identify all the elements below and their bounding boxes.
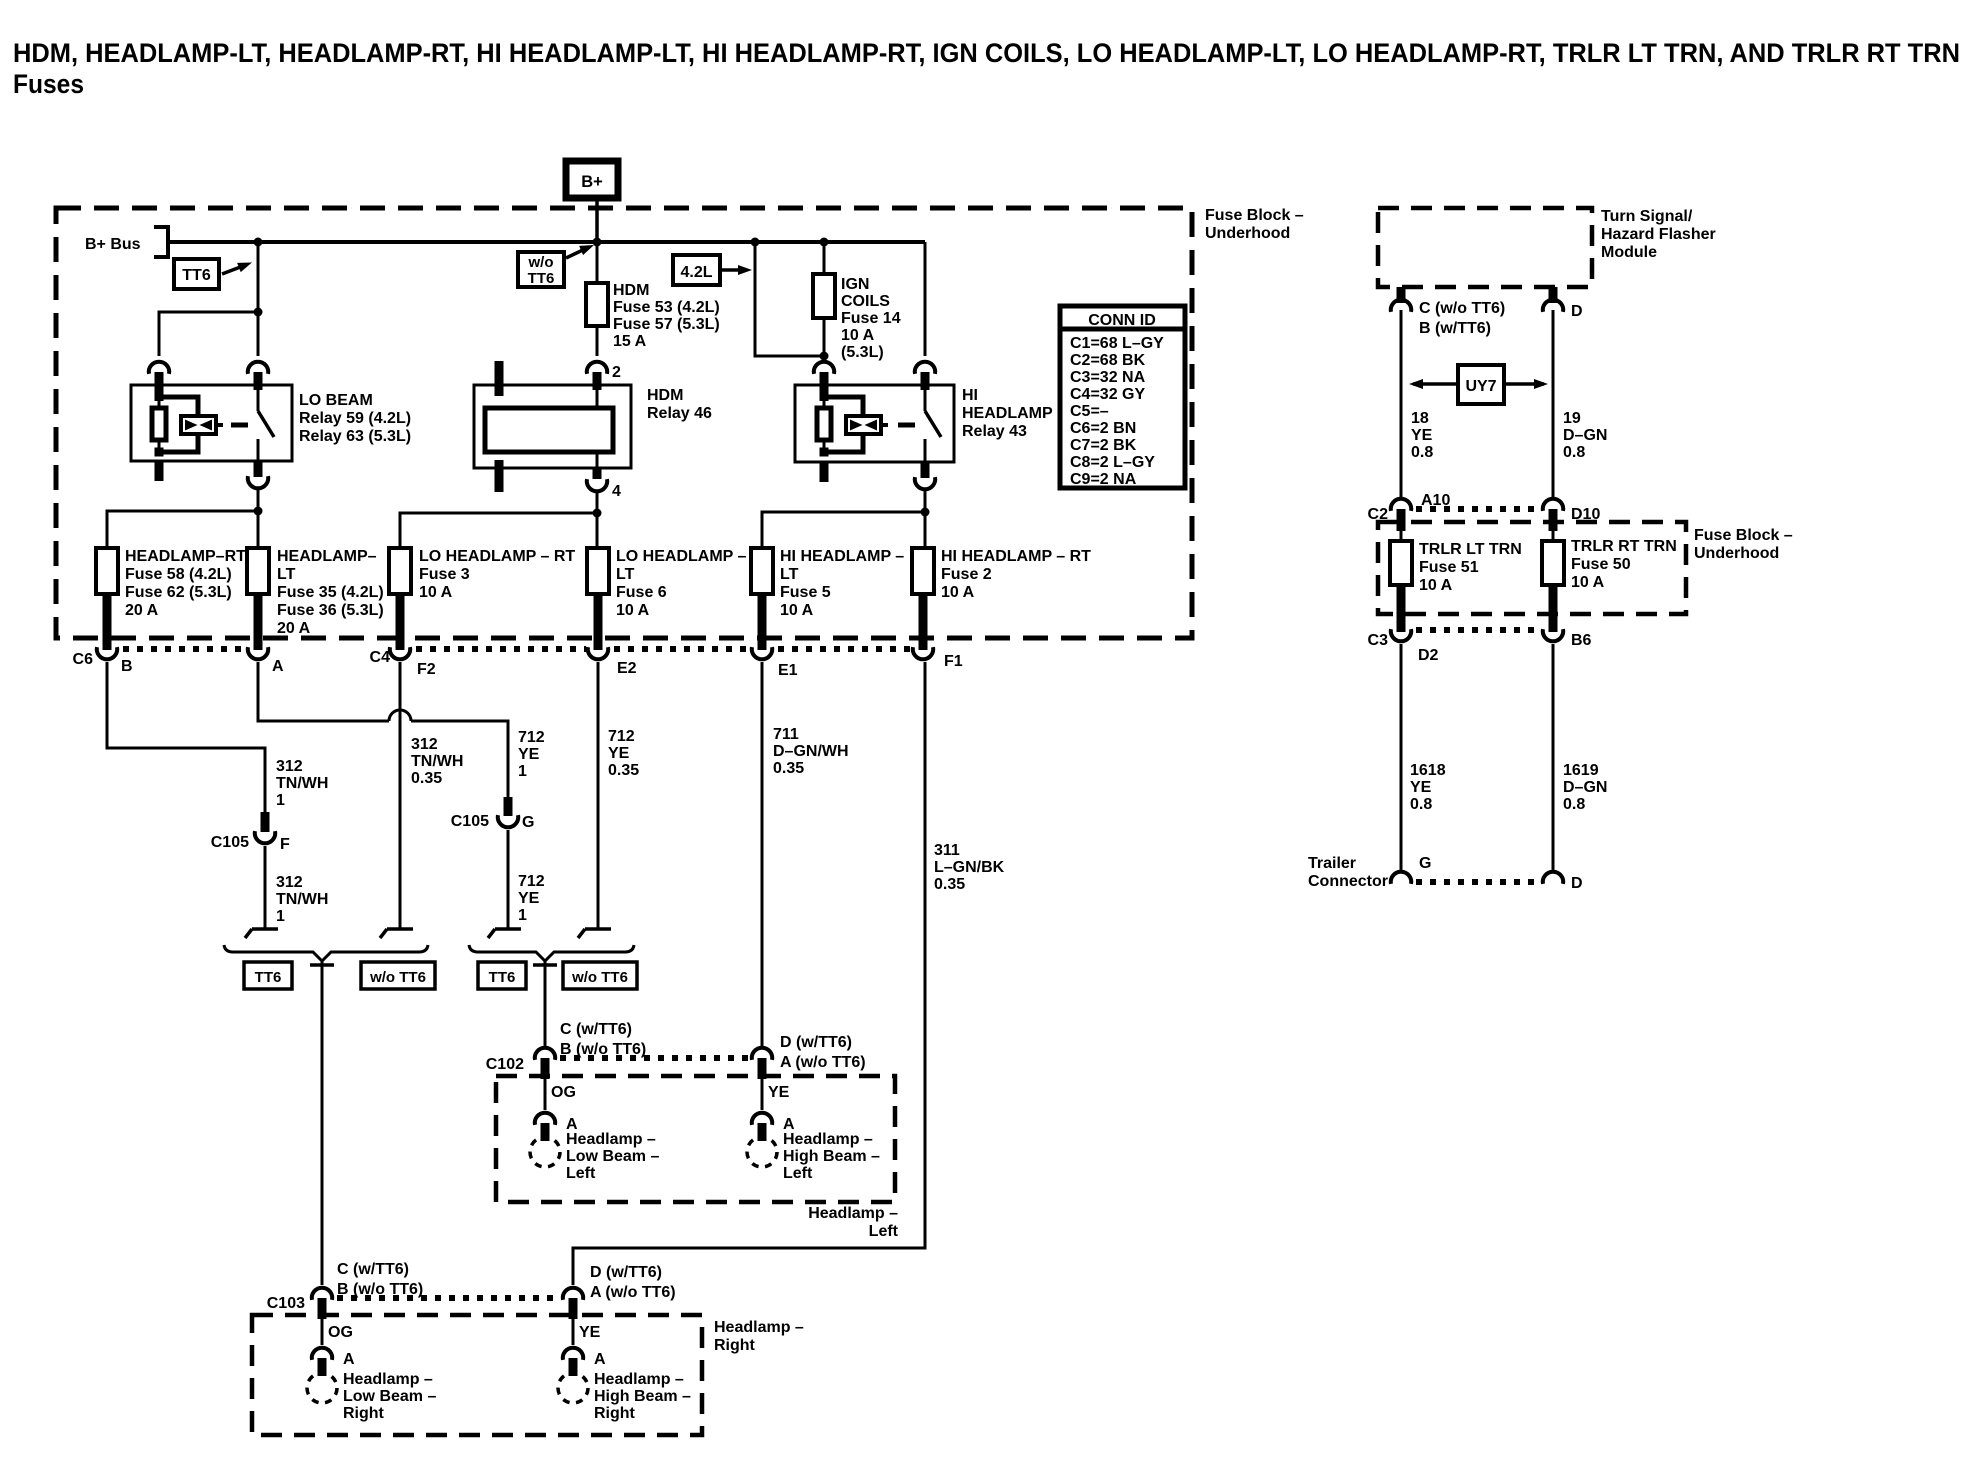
wire E2 down	[597, 662, 600, 929]
connector C2 arc A10	[1391, 499, 1411, 511]
junction bus / 4.2L branch	[751, 238, 760, 247]
relay internal coil lead	[823, 385, 826, 408]
svg-text:OG: OG	[328, 1324, 353, 1341]
wire HDM fuse to relay	[596, 326, 599, 356]
svg-text:E1: E1	[778, 662, 798, 679]
connector arc module C/B	[1391, 300, 1411, 312]
pin fuse output E2	[594, 594, 603, 650]
wire 1618 YE down	[1400, 644, 1403, 870]
svg-text:C3=32 NA: C3=32 NA	[1070, 369, 1146, 386]
relay HI HEADLAMP box	[795, 385, 954, 462]
wire OG left	[544, 1079, 547, 1110]
LO BEAM relay lower coil stub	[155, 461, 164, 481]
relay coil junction bottom	[820, 448, 829, 457]
svg-text:Left: Left	[783, 1165, 813, 1182]
relay coil lead bottom	[823, 440, 826, 452]
fuse LO HEADLAMP-RT	[389, 548, 411, 594]
svg-text:A: A	[594, 1351, 606, 1368]
svg-text:Hazard Flasher: Hazard Flasher	[1601, 226, 1716, 243]
connector arc headlamp high beam right	[563, 1348, 583, 1360]
svg-text:G: G	[1419, 855, 1431, 872]
svg-text:HEADLAMP: HEADLAMP	[962, 405, 1053, 422]
junction IGN/4.2L	[820, 352, 829, 361]
pin fuse output B	[103, 594, 112, 650]
svg-text:B+ Bus: B+ Bus	[85, 236, 141, 253]
connector arc C105 F	[255, 831, 275, 843]
svg-text:20 A: 20 A	[277, 620, 311, 637]
svg-text:Module: Module	[1601, 244, 1657, 261]
svg-text:Fuse 36 (5.3L): Fuse 36 (5.3L)	[277, 602, 384, 619]
fuse HEADLAMP-RT	[96, 548, 118, 594]
fuse TRLR LT TRN	[1390, 541, 1412, 585]
wire to TRLR RT TRN fuse	[1552, 529, 1555, 541]
connector C3 arc D2	[1391, 629, 1411, 641]
connector C3 dotted line	[1416, 627, 1538, 633]
svg-text:TT6: TT6	[528, 270, 555, 287]
svg-text:312: 312	[276, 874, 303, 891]
svg-text:B (w/TT6): B (w/TT6)	[1419, 320, 1491, 337]
CONN ID table box	[1060, 306, 1185, 488]
pin D10 below	[1549, 509, 1558, 531]
relay coil (resistor)	[152, 408, 166, 440]
lamp headlamp low beam right	[307, 1373, 337, 1403]
junction LO HEADLAMP fuse feed	[593, 509, 602, 518]
svg-text:10 A: 10 A	[1571, 574, 1605, 591]
junction HI HEADLAMP fuse feed	[921, 508, 930, 517]
wire A to C105 G	[258, 662, 389, 721]
connector arc E2	[588, 647, 608, 659]
svg-text:312: 312	[411, 736, 438, 753]
splice brace TT6 left headlamp	[469, 945, 634, 961]
wire A to C105 G part2	[411, 721, 508, 797]
svg-text:TRLR RT TRN: TRLR RT TRN	[1571, 538, 1677, 555]
pin fuse output A	[254, 594, 263, 650]
svg-text:D–GN: D–GN	[1563, 779, 1607, 796]
wire B to C105 F	[107, 662, 265, 812]
connector arc LO BEAM relay coil pin	[149, 362, 169, 374]
svg-text:w/o TT6: w/o TT6	[369, 969, 426, 986]
svg-text:Fuse 51: Fuse 51	[1419, 559, 1479, 576]
svg-text:LO BEAM: LO BEAM	[299, 392, 373, 409]
junction bus / TT6 branch	[254, 238, 263, 247]
connector arc B6	[1543, 629, 1563, 641]
B+ Bus bracket	[154, 227, 168, 257]
svg-text:LT: LT	[616, 566, 635, 583]
svg-text:TN/WH: TN/WH	[276, 775, 328, 792]
svg-text:18: 18	[1411, 410, 1429, 427]
pin C105 F	[261, 812, 270, 832]
svg-text:0.35: 0.35	[773, 760, 804, 777]
relay suppression diode box	[181, 416, 216, 434]
connector arc LO BEAM relay switch pin	[248, 362, 268, 374]
svg-text:Underhood: Underhood	[1205, 225, 1290, 242]
connector C4 dotted line E2-E1	[614, 646, 750, 652]
pin LO BEAM relay switch output	[254, 461, 263, 477]
HDM relay top-left stub	[495, 361, 504, 396]
svg-text:HEADLAMP–: HEADLAMP–	[277, 548, 377, 565]
UY7 option box	[1458, 365, 1504, 404]
junction headlamp fuse feed	[254, 507, 263, 516]
svg-text:A (w/o TT6): A (w/o TT6)	[590, 1284, 676, 1301]
svg-text:D–GN: D–GN	[1563, 427, 1607, 444]
svg-text:311: 311	[934, 842, 960, 859]
pin fuse output E1	[758, 594, 767, 650]
svg-text:711: 711	[773, 726, 799, 743]
headlamp right dashed box	[252, 1315, 702, 1435]
svg-text:w/o: w/o	[528, 254, 554, 271]
wire end F2	[380, 929, 413, 938]
svg-text:C2=68 BK: C2=68 BK	[1070, 352, 1146, 369]
wire to HEADLAMP-RT fuse	[107, 511, 258, 548]
svg-text:TRLR LT TRN: TRLR LT TRN	[1419, 541, 1522, 558]
svg-text:1618: 1618	[1410, 762, 1446, 779]
pin TRLR LT fuse output	[1397, 585, 1406, 632]
svg-text:Left: Left	[566, 1165, 596, 1182]
connector C4 dotted line E1-F1	[778, 646, 911, 652]
svg-text:Fuse 14: Fuse 14	[841, 310, 901, 327]
svg-text:19: 19	[1563, 410, 1581, 427]
option TT6 box (left low beam)	[478, 962, 526, 989]
svg-text:TT6: TT6	[489, 969, 516, 986]
svg-text:Fuse 53 (4.2L): Fuse 53 (4.2L)	[613, 299, 720, 316]
junction bus / B+ feed	[593, 238, 602, 247]
wire to TRLR LT TRN fuse	[1400, 529, 1403, 541]
svg-text:D (w/TT6): D (w/TT6)	[780, 1034, 852, 1051]
svg-text:0.8: 0.8	[1563, 796, 1585, 813]
pin headlamp high beam left	[758, 1123, 767, 1141]
relay switch blade	[925, 411, 941, 437]
svg-text:Fuse 35 (4.2L): Fuse 35 (4.2L)	[277, 584, 384, 601]
relay internal coil lead	[158, 385, 161, 408]
relay suppression loop wire	[828, 397, 863, 416]
fuse IGN COILS wire top	[823, 242, 826, 274]
connector arc C105 G	[498, 815, 518, 827]
svg-text:A: A	[343, 1351, 355, 1368]
fuse HEADLAMP-LT	[247, 548, 269, 594]
HDM relay pin2 internal lead	[596, 385, 599, 408]
svg-text:YE: YE	[1411, 427, 1433, 444]
wire C105 F down	[264, 846, 267, 929]
wire 4.2L branch	[755, 242, 824, 356]
wire YE left	[761, 1079, 764, 1110]
svg-text:Right: Right	[714, 1337, 756, 1354]
connector C103 dotted line	[337, 1295, 560, 1301]
fuse TRLR RT TRN	[1542, 541, 1564, 585]
connector arc module D	[1543, 300, 1563, 312]
TT6 option box	[174, 259, 219, 289]
svg-text:20 A: 20 A	[125, 602, 159, 619]
fuse block underhood dashed border	[56, 208, 1192, 638]
svg-text:C4: C4	[370, 649, 391, 666]
svg-text:HDM: HDM	[647, 387, 683, 404]
svg-text:B+: B+	[581, 173, 603, 191]
svg-text:F: F	[280, 836, 290, 853]
trailer connector arc G	[1391, 872, 1411, 884]
connector arc HDM relay pin 2	[587, 362, 607, 374]
trailer connector dotted line	[1416, 879, 1538, 885]
svg-text:TT6: TT6	[182, 267, 211, 284]
wire IGN fuse to HI relay coil	[823, 318, 826, 356]
junction bus / IGN COILS	[820, 238, 829, 247]
svg-text:Connector: Connector	[1308, 873, 1388, 890]
pin TRLR RT fuse output	[1549, 585, 1558, 632]
svg-text:Trailer: Trailer	[1308, 855, 1356, 872]
relay switch blade	[258, 411, 274, 437]
wire end B branch	[245, 929, 278, 938]
relay coil junction top	[820, 392, 829, 401]
fuse LO HEADLAMP-LT	[587, 548, 609, 594]
wire bus to LO BEAM relay branch	[257, 242, 260, 312]
svg-text:0.35: 0.35	[934, 876, 965, 893]
fuse block underhood (trailer) dashed box	[1378, 522, 1686, 614]
turn signal hazard flasher module dashed box	[1378, 208, 1592, 287]
svg-text:Low Beam –: Low Beam –	[343, 1388, 436, 1405]
svg-text:Underhood: Underhood	[1694, 545, 1779, 562]
svg-text:D: D	[1571, 875, 1583, 892]
lamp headlamp low beam left	[530, 1137, 560, 1167]
CONN ID header separator	[1060, 327, 1185, 332]
svg-text:1619: 1619	[1563, 762, 1599, 779]
relay coil (resistor)	[817, 408, 831, 440]
svg-text:1: 1	[518, 763, 527, 780]
connector arc HI relay coil pin	[814, 362, 834, 374]
svg-text:HEADLAMP–RT: HEADLAMP–RT	[125, 548, 246, 565]
B+ power feed box	[566, 161, 618, 198]
HDM relay pin4 internal lead	[596, 452, 599, 468]
svg-text:D2: D2	[1418, 647, 1439, 664]
svg-text:Headlamp –: Headlamp –	[808, 1205, 898, 1222]
svg-text:G: G	[522, 814, 534, 831]
svg-text:w/o TT6: w/o TT6	[571, 969, 628, 986]
svg-text:10 A: 10 A	[780, 602, 814, 619]
wire hop over F2 wire	[389, 710, 411, 721]
connector C6 dotted line	[123, 646, 244, 652]
wire 18 YE down	[1400, 310, 1403, 497]
svg-text:B6: B6	[1571, 632, 1592, 649]
svg-text:10 A: 10 A	[419, 584, 453, 601]
svg-text:TN/WH: TN/WH	[411, 753, 463, 770]
wire 1619 D-GN down	[1552, 644, 1555, 870]
svg-text:LT: LT	[780, 566, 799, 583]
svg-text:Headlamp –: Headlamp –	[714, 1319, 804, 1336]
svg-text:C6: C6	[73, 651, 94, 668]
svg-text:Turn Signal/: Turn Signal/	[1601, 208, 1693, 225]
svg-text:Headlamp –: Headlamp –	[343, 1371, 433, 1388]
pin LO BEAM relay switch	[254, 372, 263, 390]
pin LO BEAM relay coil	[155, 372, 164, 396]
svg-text:712: 712	[518, 729, 545, 746]
connector arc headlamp high beam left	[752, 1113, 772, 1125]
option TT6 box (right low beam)	[244, 962, 292, 989]
merged wire T left	[533, 963, 557, 967]
svg-text:2: 2	[612, 364, 621, 381]
svg-text:Fuse 5: Fuse 5	[780, 584, 831, 601]
relay LO BEAM box	[131, 385, 292, 461]
svg-text:L–GN/BK: L–GN/BK	[934, 859, 1005, 876]
svg-text:CONN ID: CONN ID	[1088, 312, 1156, 329]
svg-text:4: 4	[612, 483, 621, 500]
svg-text:C103: C103	[267, 1295, 305, 1312]
svg-text:Fuses: Fuses	[13, 69, 84, 99]
svg-text:C (w/TT6): C (w/TT6)	[560, 1021, 632, 1038]
svg-text:Headlamp –: Headlamp –	[594, 1371, 684, 1388]
relay suppression loop wire lower	[828, 434, 863, 452]
svg-text:A: A	[272, 658, 284, 675]
svg-text:HI: HI	[962, 387, 978, 404]
pin C103 left	[318, 1298, 327, 1319]
HDM relay bottom-left stub	[495, 460, 504, 492]
connector C102 dotted line	[560, 1055, 748, 1061]
svg-text:HI HEADLAMP – RT: HI HEADLAMP – RT	[941, 548, 1091, 565]
fuse HDM	[586, 283, 608, 326]
svg-text:F2: F2	[417, 661, 436, 678]
svg-text:Relay 63 (5.3L): Relay 63 (5.3L)	[299, 428, 411, 445]
svg-text:10 A: 10 A	[841, 327, 875, 344]
UY7 option arrow line	[1413, 382, 1544, 386]
pin HDM relay 4	[593, 468, 602, 479]
wire HI output down	[924, 490, 927, 548]
svg-text:C9=2 NA: C9=2 NA	[1070, 471, 1137, 488]
svg-text:Fuse 62 (5.3L): Fuse 62 (5.3L)	[125, 584, 232, 601]
svg-text:Headlamp –: Headlamp –	[566, 1131, 656, 1148]
relay coil lead bottom	[158, 440, 161, 452]
headlamp left dashed box	[496, 1076, 895, 1202]
svg-text:1: 1	[276, 792, 285, 809]
wire LO BEAM output down	[257, 489, 260, 548]
svg-text:Fuse 50: Fuse 50	[1571, 556, 1631, 573]
connector arc A	[248, 647, 268, 659]
relay suppression diode box	[846, 416, 881, 434]
svg-text:C4=32 GY: C4=32 GY	[1070, 386, 1145, 403]
svg-text:D–GN/WH: D–GN/WH	[773, 743, 849, 760]
svg-text:Headlamp –: Headlamp –	[783, 1131, 873, 1148]
connector C2 dotted line	[1416, 506, 1538, 512]
fuse HI HEADLAMP-LT	[751, 548, 773, 594]
connector arc LO BEAM switch output	[248, 476, 268, 488]
svg-text:Relay 43: Relay 43	[962, 423, 1027, 440]
wire merged to C103	[321, 959, 324, 1285]
wire F2 down	[399, 662, 402, 929]
svg-text:LT: LT	[277, 566, 296, 583]
svg-text:C5=–: C5=–	[1070, 403, 1109, 420]
wire to LO HEADLAMP-RT fuse	[400, 513, 597, 548]
relay HDM box	[474, 385, 631, 468]
svg-text:B: B	[121, 658, 133, 675]
relay coil junction top	[155, 392, 164, 401]
svg-text:D (w/TT6): D (w/TT6)	[590, 1264, 662, 1281]
svg-text:Fuse 57 (5.3L): Fuse 57 (5.3L)	[613, 316, 720, 333]
wire bus to LO BEAM switch	[257, 312, 260, 356]
w/o TT6 option box	[518, 252, 564, 287]
svg-text:C105: C105	[451, 813, 489, 830]
svg-text:C3: C3	[1368, 632, 1389, 649]
svg-text:YE: YE	[768, 1084, 790, 1101]
wire F1 down to C103	[573, 662, 925, 1285]
svg-text:COILS: COILS	[841, 293, 890, 310]
junction LO BEAM coil branch	[254, 308, 263, 317]
svg-text:1: 1	[276, 908, 285, 925]
svg-text:Relay 59 (4.2L): Relay 59 (4.2L)	[299, 410, 411, 427]
relay switch lead	[257, 385, 260, 411]
svg-text:UY7: UY7	[1465, 378, 1496, 395]
pin headlamp low beam left	[541, 1123, 550, 1141]
svg-text:1: 1	[518, 907, 527, 924]
option w/o TT6 box (left low beam)	[563, 962, 637, 989]
pin C102 left	[541, 1058, 550, 1079]
pin C102 right	[758, 1058, 767, 1079]
svg-text:712: 712	[518, 873, 545, 890]
connector arc HI switch output	[915, 477, 935, 489]
svg-text:C6=2 BN: C6=2 BN	[1070, 420, 1136, 437]
svg-text:LO HEADLAMP – RT: LO HEADLAMP – RT	[419, 548, 575, 565]
fuse IGN COILS	[813, 274, 835, 318]
svg-text:10 A: 10 A	[1419, 577, 1453, 594]
lamp headlamp high beam left	[747, 1137, 777, 1167]
pin module D	[1549, 287, 1558, 303]
splice brace TT6 right headlamp	[224, 945, 428, 961]
wire to LO BEAM coil	[159, 312, 258, 356]
svg-text:Fuse Block –: Fuse Block –	[1205, 207, 1304, 224]
svg-text:High Beam –: High Beam –	[594, 1388, 691, 1405]
HI relay switch lower lead	[924, 439, 927, 462]
LO BEAM relay switch lower lead	[257, 439, 260, 461]
TT6 option arrow	[222, 266, 243, 274]
HI relay lower coil stub	[820, 462, 829, 482]
svg-text:0.35: 0.35	[608, 762, 639, 779]
svg-text:15 A: 15 A	[613, 333, 647, 350]
pin C103 right	[569, 1298, 578, 1319]
svg-text:712: 712	[608, 728, 635, 745]
4.2L option box	[673, 255, 720, 285]
connector arc headlamp low beam left	[535, 1113, 555, 1125]
svg-text:10 A: 10 A	[616, 602, 650, 619]
svg-text:312: 312	[276, 758, 303, 775]
connector arc HI relay switch pin	[915, 362, 935, 374]
svg-text:C (w/TT6): C (w/TT6)	[337, 1261, 409, 1278]
connector C103 arc D/A	[563, 1288, 583, 1300]
connector arc F2	[390, 647, 410, 659]
lamp headlamp high beam right	[558, 1373, 588, 1403]
svg-text:0.8: 0.8	[1411, 444, 1433, 461]
wire end A branch	[488, 929, 521, 938]
relay actuation dashed link	[231, 423, 248, 428]
svg-text:Relay 46: Relay 46	[647, 405, 712, 422]
pin C2 below	[1397, 509, 1406, 531]
wire 19 D-GN down	[1552, 310, 1555, 497]
svg-text:HI HEADLAMP –: HI HEADLAMP –	[780, 548, 904, 565]
svg-text:Left: Left	[869, 1223, 899, 1240]
svg-text:E2: E2	[617, 660, 637, 677]
pin HDM relay 2	[593, 372, 602, 390]
svg-text:0.8: 0.8	[1563, 444, 1585, 461]
connector arc F1	[913, 647, 933, 659]
svg-text:C7=2 BK: C7=2 BK	[1070, 437, 1137, 454]
pin HI relay switch output	[921, 462, 930, 478]
wire to HI HEADLAMP-LT fuse	[762, 512, 925, 548]
svg-text:Low Beam –: Low Beam –	[566, 1148, 659, 1165]
wire YE right	[572, 1319, 575, 1345]
wire bus to HDM fuse	[596, 242, 599, 283]
svg-text:TN/WH: TN/WH	[276, 891, 328, 908]
pin fuse output F1	[919, 594, 928, 650]
connector C103 arc C/B	[312, 1288, 332, 1300]
fuse HI HEADLAMP-RT	[912, 548, 934, 594]
wire B+ to bus	[595, 198, 599, 242]
merged wire T right	[310, 963, 334, 967]
svg-text:C (w/o TT6): C (w/o TT6)	[1419, 300, 1505, 317]
svg-text:0.8: 0.8	[1410, 796, 1432, 813]
connector C4 dotted line F2-E2	[416, 646, 586, 652]
